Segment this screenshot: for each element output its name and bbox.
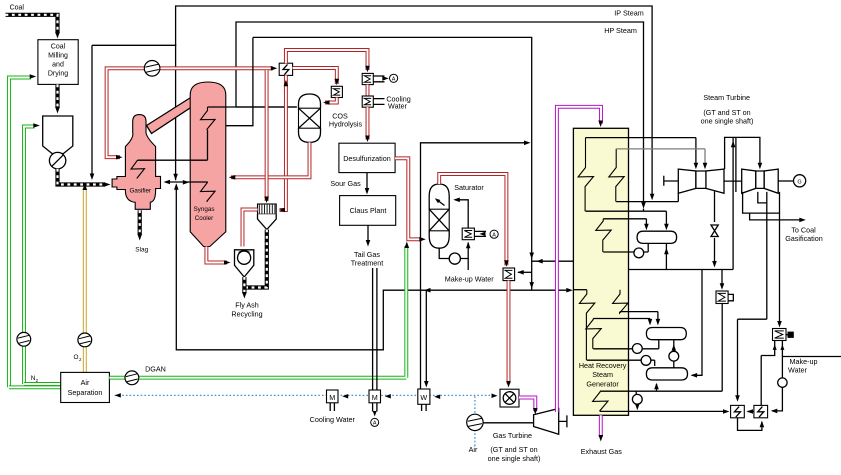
generator shaft — [778, 180, 793, 182]
wire steam line into turbine1 left — [616, 193, 678, 201]
pump between drums — [669, 351, 679, 361]
svg-text:Steam: Steam — [592, 370, 613, 379]
wire turbine exhaust into LP drum — [692, 270, 702, 376]
svg-text:Fly Ash: Fly Ash — [235, 300, 259, 309]
wire coil4 top tee — [573, 289, 586, 291]
arrow IP steam onto drum feed line — [641, 202, 646, 209]
wire coil6 bottom from IP drum via pump — [593, 340, 659, 349]
hopper vessel — [43, 116, 73, 154]
HRSG coil 3 evaporator — [596, 219, 611, 252]
analyzer circle A2 — [490, 230, 498, 238]
pipe red COS bottom to cooler — [231, 142, 310, 177]
compressor on N2 line — [17, 332, 31, 346]
analyzer circle A1 — [390, 74, 398, 82]
HRSG coil 5 — [613, 290, 628, 313]
HX sigma3 — [331, 86, 342, 97]
pipe red scrubber right to sigma3 — [293, 68, 337, 84]
arrow into HRSG left wall — [566, 288, 573, 293]
wire coil6 top to IP drum — [593, 319, 650, 323]
pipe red saturator top loop — [439, 174, 506, 266]
gas turbine expander — [534, 409, 559, 435]
pump IP drum recirculation — [632, 344, 642, 354]
svg-text:W: W — [420, 393, 427, 402]
condensate header under turbines — [629, 269, 734, 271]
vessel Gasifier — [112, 115, 160, 210]
IP steam drum — [646, 328, 686, 340]
wire gasifier lower inlet line — [167, 181, 208, 183]
coal striped feed line — [6, 15, 58, 34]
wire desulfurization to claus — [366, 173, 368, 191]
svg-text:one single shaft): one single shaft) — [488, 454, 541, 463]
wire steam line into vertical x531 — [421, 143, 529, 389]
unit Claus Plant — [340, 196, 396, 226]
HRSG coil 1 outlet to steam turbine — [586, 138, 696, 166]
candle filter unit — [258, 204, 277, 214]
wire makeup water line — [772, 341, 841, 411]
svg-text:Water: Water — [788, 365, 808, 374]
svg-text:Desulfurization: Desulfurization — [343, 154, 391, 163]
svg-text:DGAN: DGAN — [145, 365, 166, 374]
pipe N2 green to coal mill — [9, 78, 31, 388]
svg-text:Syngas: Syngas — [193, 206, 214, 213]
LP turbine exhaust hood — [743, 192, 780, 213]
svg-text:Separation: Separation — [68, 388, 103, 397]
svg-text:M: M — [372, 393, 378, 402]
wire cooler steam risers — [226, 37, 297, 125]
svg-text:A: A — [373, 421, 377, 427]
gasifier to cooler duct — [147, 97, 192, 134]
wire IP steam line — [236, 22, 644, 204]
svg-text:Drying: Drying — [48, 71, 68, 78]
saturator spray arrow — [437, 200, 445, 206]
HRSG coil 4 IP superheater — [579, 290, 594, 361]
arrow line A onto turbine feed line — [650, 194, 655, 201]
coal striped line to gasifier — [58, 169, 106, 185]
svg-text:Make-up Water: Make-up Water — [445, 275, 494, 284]
wire cooler coil top line — [208, 106, 297, 108]
unit Coal Milling and Drying — [38, 40, 78, 85]
pipe magenta combustor to gas turbine — [519, 398, 535, 412]
pipe red scrubber top loop to sigma1 — [286, 50, 368, 70]
shaft between turbines — [724, 180, 742, 182]
svg-text:IP Steam: IP Steam — [614, 9, 643, 18]
air compressor circle — [467, 414, 483, 430]
coal striped line to hopper — [55, 84, 59, 108]
pipe DGAN green from air separation to saturator junction — [109, 246, 406, 378]
arrow down x531 onto y289 — [529, 282, 534, 289]
HX box 2 LP heater — [754, 405, 768, 417]
slag striped line — [138, 210, 142, 235]
vessel Syngas Cooler — [190, 82, 226, 247]
svg-text:HP Steam: HP Steam — [604, 26, 637, 35]
svg-text:Cooling Water: Cooling Water — [310, 415, 356, 424]
svg-text:(GT and ST on: (GT and ST on — [490, 445, 537, 454]
pipe magenta GT exhaust to HRSG — [557, 107, 601, 412]
wire to coal gasification extraction — [750, 213, 802, 220]
svg-text:O: O — [74, 354, 79, 361]
svg-text:Heat Recovery: Heat Recovery — [579, 361, 627, 370]
wire saturator bottoms to makeup — [439, 243, 468, 271]
turbine shaft left end — [664, 176, 679, 186]
bottom condensate header to HX boxes — [600, 410, 727, 412]
HX scrubber box — [279, 63, 292, 75]
rotary valve circle — [49, 152, 65, 168]
wire coil4 bottom via pump to LP drum — [587, 360, 655, 366]
gas turbine shaft — [559, 415, 567, 427]
svg-text:Exhaust Gas: Exhaust Gas — [581, 447, 623, 456]
svg-text:Claus Plant: Claus Plant — [350, 206, 387, 215]
HX sigma7 gland condenser — [716, 291, 728, 304]
pump on quench line — [144, 61, 160, 77]
steam turbine HP-IP bowtie — [678, 169, 696, 193]
wire coil5 to IP drum — [620, 312, 658, 322]
wire HX2 to HX1 — [748, 411, 754, 413]
vessel Saturator — [429, 184, 449, 248]
pipe red cooler bottom to cyclone — [206, 247, 227, 263]
wire sigma5 left drain to HX2 top — [761, 341, 775, 406]
pump makeup water — [778, 378, 787, 387]
svg-text:Coal: Coal — [10, 5, 25, 12]
mixer M1 cooling water — [327, 390, 339, 403]
wire LP admission crossover — [725, 137, 760, 169]
mixer M2 cooling water — [369, 390, 381, 403]
pipe red filter side to cyclone top — [243, 210, 258, 247]
svg-text:Water: Water — [388, 101, 408, 110]
compressor on DGAN line — [125, 371, 139, 385]
wire coil7 header to drum and gland condenser drain — [600, 304, 722, 395]
wire big enclosure box — [176, 37, 571, 349]
pipe magenta exhaust gas stack — [599, 415, 603, 437]
svg-text:Recycling: Recycling — [231, 309, 262, 318]
HRSG coil 2 superheater — [609, 149, 624, 202]
wire coil3 bottom from HP drum via pump — [603, 243, 648, 252]
pipe red below scrubber — [280, 75, 286, 210]
svg-text:Milling: Milling — [48, 53, 68, 60]
cooler upper coil — [201, 107, 216, 130]
cyclone striped discharge — [242, 277, 246, 294]
pipe red sigma1 to sigma2 — [366, 85, 370, 96]
wire drum1 bottom to condensate header — [665, 243, 667, 269]
svg-text:Gasification: Gasification — [785, 234, 823, 243]
pump on coil4 line — [641, 356, 651, 366]
pipe red clean syngas desulfurization to saturator — [395, 158, 421, 239]
svg-text:A: A — [392, 77, 396, 83]
wire coil3 top to HP drum — [603, 219, 646, 227]
wire claus to tail gas — [367, 225, 369, 242]
wire condensate down to bottom header — [636, 404, 638, 408]
svg-text:one single shaft): one single shaft) — [701, 116, 754, 125]
wire crossover riser — [733, 137, 736, 269]
svg-text:G: G — [797, 179, 801, 185]
pipe air dotted blue line — [115, 394, 495, 396]
cyclone vessel — [235, 250, 254, 277]
svg-text:A: A — [492, 233, 496, 239]
HX box 1 LP heater — [731, 405, 745, 417]
wire saturator recirculation — [455, 200, 468, 228]
HP steam drum — [637, 231, 677, 243]
HX sigma2 cooling water — [362, 96, 373, 107]
wire sigma7 feeds — [721, 270, 723, 286]
water recycle line into coal line — [92, 45, 176, 175]
HRSG coil 1 superheater — [578, 138, 593, 212]
HX sigma1 — [362, 73, 373, 84]
steam turbine LP bowtie — [742, 169, 756, 193]
pump saturator circulation — [449, 253, 460, 264]
mixer W water box — [418, 389, 430, 404]
HRSG coil 6 IP evaporator — [586, 319, 601, 349]
svg-text:Hydrolysis: Hydrolysis — [329, 120, 363, 129]
pump condensate — [632, 394, 642, 404]
svg-text:Air: Air — [81, 378, 90, 387]
wire HRSG-to-saturator-heater line — [532, 260, 574, 262]
generator G — [794, 175, 806, 187]
wire branch into sigma heater — [518, 271, 532, 273]
svg-text:and: and — [52, 62, 64, 69]
wire compressor to gas turbine — [483, 422, 533, 424]
wire drum feed line y211 extension — [643, 209, 645, 212]
valve — [711, 225, 718, 237]
wire M2 feed lines from claus area — [373, 268, 377, 390]
cooler lower coil — [201, 182, 216, 202]
HX sigma5 makeup heater — [773, 329, 787, 341]
svg-text:Slag: Slag — [135, 246, 148, 253]
unit Air Separation — [61, 372, 110, 402]
HX sigma4 fuel gas heater — [503, 268, 515, 281]
unit Heat Recovery Steam Generator — [573, 128, 628, 415]
HRSG coil 2 outlet to steam turbine — [616, 149, 705, 166]
analyzer circle A3 — [371, 418, 379, 426]
gasifier coil — [131, 160, 145, 178]
svg-text:Generator: Generator — [586, 379, 619, 388]
compressor on O2 line — [78, 333, 92, 347]
svg-text:Coal: Coal — [51, 44, 66, 51]
svg-text:Gas Turbine: Gas Turbine — [493, 431, 532, 440]
pipe red fuel gas to combustor — [507, 281, 511, 384]
pipe air dotted vertical — [474, 395, 476, 446]
svg-text:Air: Air — [469, 445, 478, 454]
wire turbine1 exhaust to valve — [714, 191, 716, 222]
combustor box — [500, 389, 519, 407]
filter striped discharge — [244, 230, 266, 288]
svg-text:M: M — [329, 393, 335, 402]
svg-text:Treatment: Treatment — [351, 259, 384, 268]
pipe red into filter top — [265, 70, 269, 201]
pipe syngas quench red from gasifier to scrubber HX — [107, 68, 273, 157]
analyzer lines sigma1 — [373, 76, 384, 82]
wire HX loop bottom — [738, 418, 762, 431]
wire coil1 bottom to HP drum — [586, 211, 667, 227]
HX sigma6 saturator heater — [462, 228, 474, 240]
wire turbine extraction to HX row — [738, 319, 767, 398]
svg-text:Saturator: Saturator — [454, 183, 484, 192]
unit Desulfurization — [339, 143, 395, 172]
wire W feed from condensate — [425, 290, 427, 384]
analyzer lines sigma6 — [474, 231, 486, 236]
pipe N2 green to hopper — [24, 127, 35, 385]
pipe red sigma2 to desulfurization — [366, 107, 370, 139]
HRSG coil 7 economizer — [593, 391, 608, 411]
svg-text:Cooler: Cooler — [195, 215, 214, 222]
wire gasifier-steam line A top — [176, 6, 652, 196]
vessel COS Hydrolysis — [299, 94, 321, 142]
pipe red sigma3 to COS vessel — [325, 98, 337, 103]
svg-text:Gasifier: Gasifier — [129, 187, 151, 194]
wire IP drum to LP drum — [673, 340, 675, 368]
svg-text:Steam Turbine: Steam Turbine — [703, 93, 750, 102]
wire gasifier coil to cooler top line — [138, 130, 208, 160]
wire to sigma5 heater — [779, 213, 781, 324]
pump HP drum recirculation — [634, 248, 644, 258]
pipe O2 yellow from air separation to gasifier feed — [83, 189, 87, 372]
svg-text:Sour Gas: Sour Gas — [330, 179, 361, 188]
LP steam drum deaerator — [646, 368, 687, 380]
